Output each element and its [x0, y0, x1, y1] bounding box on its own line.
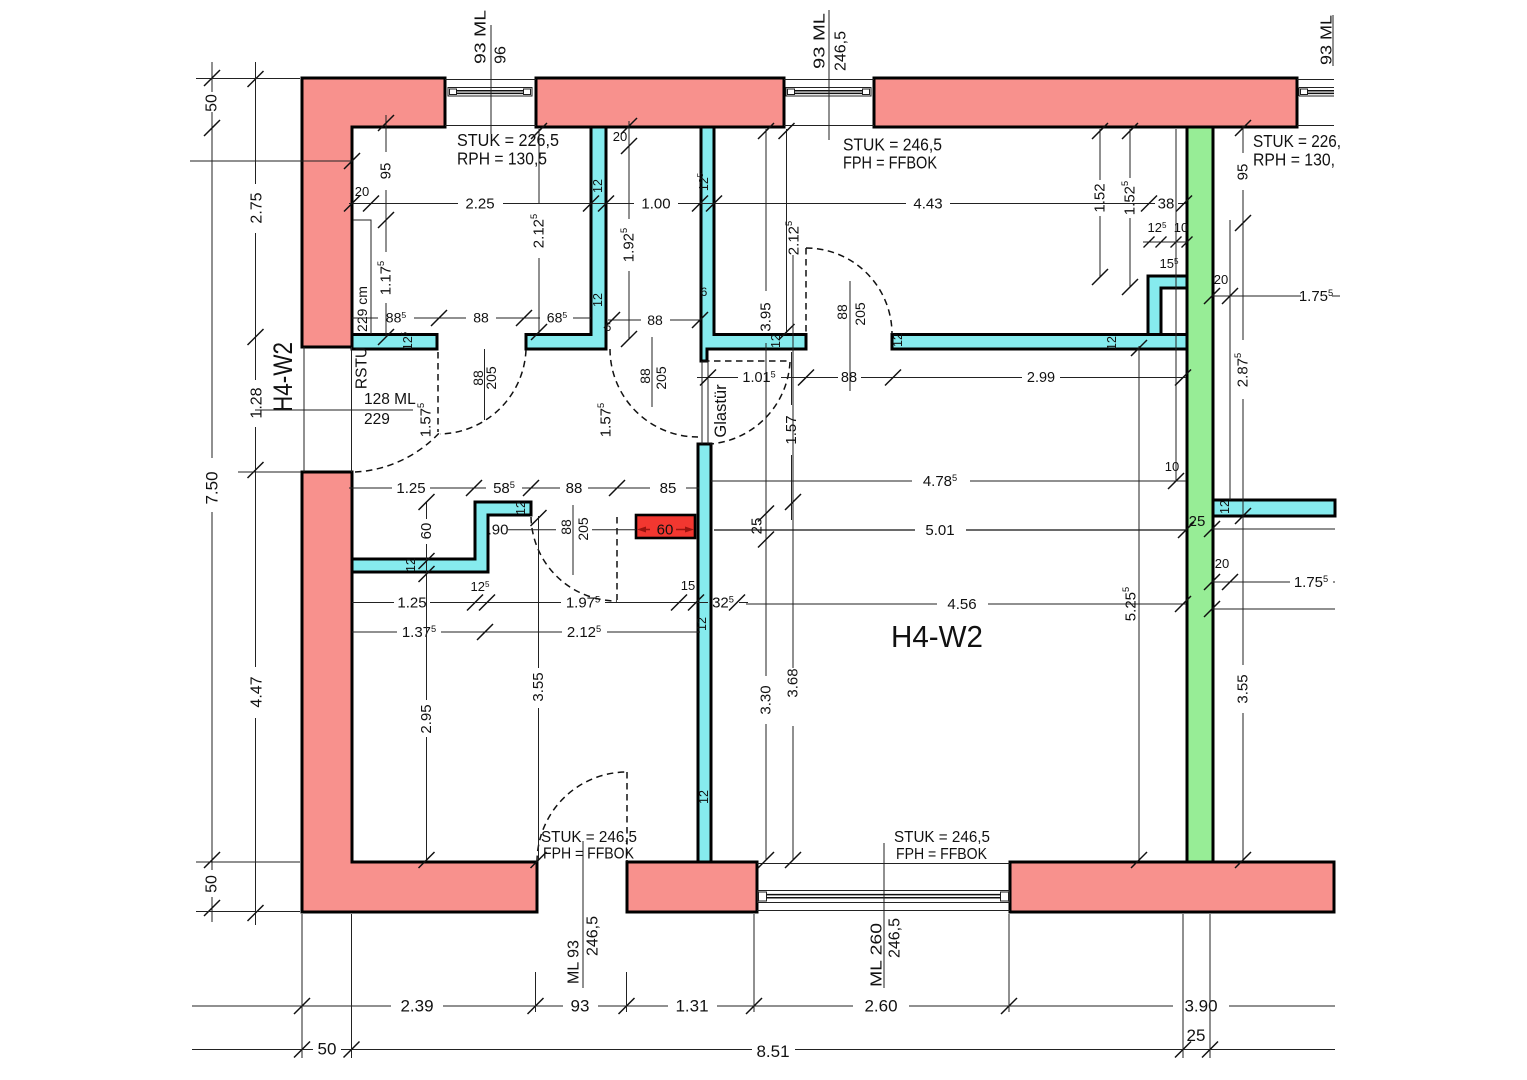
- svg-text:205: 205: [575, 517, 591, 541]
- red element 60cm: [636, 515, 695, 538]
- window W1 label 93 ML / 96: [473, 10, 510, 134]
- svg-text:38: 38: [1158, 196, 1175, 213]
- svg-text:2.25: 2.25: [465, 196, 494, 213]
- room2 dim 20 vertical: [628, 121, 630, 149]
- dim 3.68 vertical: [792, 255, 794, 668]
- svg-text:ML 260: ML 260: [869, 923, 886, 987]
- extension lines left: [196, 78, 300, 80]
- room2 dim 1.92-5 vertical: [628, 149, 630, 219]
- svg-text:93 ML: 93 ML: [473, 10, 490, 64]
- niche dim row 12-5/15-5/10: [1143, 241, 1187, 243]
- svg-text:20: 20: [613, 129, 627, 144]
- room2 bottom dim 6/88: [608, 319, 641, 321]
- svg-text:96: 96: [493, 46, 510, 64]
- svg-text:1.28: 1.28: [249, 387, 266, 418]
- door D1 label 88/205: [470, 349, 499, 420]
- svg-text:246,5: 246,5: [887, 918, 904, 958]
- svg-text:6: 6: [701, 285, 708, 299]
- window W2 in top wall: [784, 80, 874, 126]
- glass door Glastuer (dashed opening + swing): [703, 360, 790, 362]
- svg-text:93 ML: 93 ML: [812, 13, 829, 69]
- svg-text:4.56: 4.56: [947, 596, 976, 613]
- green wall (right, 25cm): [1187, 127, 1213, 862]
- svg-text:2.95: 2.95: [418, 704, 435, 733]
- top dimension chain 20/2.25/1.00/4.43/38: [349, 203, 458, 205]
- svg-text:88: 88: [473, 310, 489, 326]
- svg-text:STUK = 246,5: STUK = 246,5: [541, 829, 637, 846]
- svg-text:1.57: 1.57: [783, 415, 800, 444]
- svg-text:88: 88: [558, 519, 574, 535]
- svg-text:1.52: 1.52: [1092, 183, 1109, 212]
- dim 1.75-5 upper: [1212, 295, 1301, 297]
- svg-text:246,5: 246,5: [833, 31, 850, 71]
- svg-text:60: 60: [657, 522, 674, 539]
- svg-text:20: 20: [1215, 556, 1229, 571]
- svg-text:85: 85: [660, 480, 677, 497]
- svg-text:1.31: 1.31: [675, 997, 708, 1016]
- svg-text:93: 93: [571, 997, 590, 1016]
- feature line x=1176: [1175, 129, 1177, 481]
- interior wall A + segment 2 (cyan L): [526, 127, 606, 349]
- svg-text:88: 88: [647, 312, 663, 328]
- svg-text:3.95: 3.95: [758, 302, 775, 331]
- dim .90: [508, 529, 556, 531]
- dim 3.55 vertical left: [538, 516, 540, 668]
- glass door leaf (double thin line): [701, 361, 703, 444]
- svg-text:25: 25: [1189, 513, 1206, 530]
- dim 4.78-5 row: [711, 480, 912, 482]
- svg-text:STUK = 226,: STUK = 226,: [1253, 131, 1341, 151]
- left outer dimension line 50/7.50/50: [211, 62, 213, 92]
- svg-text:25: 25: [1187, 1026, 1206, 1045]
- svg-text:93 ML: 93 ML: [1319, 15, 1336, 65]
- svg-text:.90: .90: [488, 522, 509, 539]
- dim 60 vertical at step wall: [426, 502, 428, 519]
- svg-text:25: 25: [749, 518, 766, 535]
- svg-text:FPH = FFBOK: FPH = FFBOK: [843, 153, 937, 173]
- svg-text:8.51: 8.51: [756, 1042, 789, 1061]
- svg-text:12: 12: [514, 501, 528, 515]
- door D3 swing (top-right room): [805, 248, 807, 334]
- svg-text:6: 6: [605, 320, 612, 334]
- svg-text:1.00: 1.00: [641, 196, 670, 213]
- door D2 swing (middle room): [610, 349, 698, 437]
- outer wall bottom-left L (pink): [302, 472, 537, 912]
- door D3 label 88/205: [834, 281, 868, 391]
- svg-text:2.99: 2.99: [1027, 370, 1055, 386]
- interior wall right segment (cyan) to green wall: [892, 335, 1187, 350]
- svg-text:205: 205: [852, 302, 868, 326]
- svg-text:128 ML: 128 ML: [364, 391, 416, 408]
- bottom dim row 50/8.51/25: [192, 1049, 313, 1051]
- svg-text:3.90: 3.90: [1184, 997, 1217, 1016]
- door D4 label 88/205: [558, 505, 591, 575]
- interior wall segment 1 (cyan) left of door D1: [352, 335, 437, 350]
- svg-text:3.55: 3.55: [530, 672, 547, 701]
- outer wall bottom segment 2 (pink): [627, 862, 757, 912]
- dim row 1.37-5/2.12-5: [352, 631, 397, 633]
- svg-text:4.43: 4.43: [913, 196, 942, 213]
- svg-text:95: 95: [378, 163, 395, 180]
- svg-text:88: 88: [841, 370, 857, 386]
- dim chain 3.95/25/3.30 vertical: [765, 129, 767, 291]
- svg-text:3.30: 3.30: [758, 685, 775, 714]
- dim 5.01 row: [714, 529, 915, 531]
- svg-text:60: 60: [418, 523, 435, 540]
- svg-text:12: 12: [591, 293, 605, 307]
- outer wall top segment 2 (pink): [536, 78, 784, 127]
- svg-text:10: 10: [1165, 459, 1179, 474]
- svg-text:RSTU: RSTU: [354, 347, 371, 389]
- dim row 1.01-5/88/2.99: [697, 377, 738, 379]
- window W1 in top wall: [445, 80, 536, 126]
- svg-text:88: 88: [637, 368, 653, 384]
- interior wall (cyan) right of green wall: [1213, 500, 1335, 516]
- svg-text:12: 12: [769, 334, 783, 348]
- svg-text:STUK = 246,5: STUK = 246,5: [894, 829, 990, 846]
- svg-text:3.55: 3.55: [1235, 674, 1252, 703]
- room1 dim 2.12-5 vertical: [538, 129, 540, 203]
- line right of green y=529: [1212, 528, 1335, 530]
- svg-text:246,5: 246,5: [585, 916, 602, 956]
- window W2 label 93 ML / 246,5: [812, 10, 850, 140]
- svg-text:12: 12: [404, 558, 418, 572]
- outer wall top-left L (pink): [302, 78, 445, 347]
- left wall opening thin edges: [303, 347, 305, 472]
- entry door swing (left wall opening): [355, 431, 441, 472]
- svg-text:88: 88: [834, 304, 850, 320]
- duct niche (cyan U) at green wall: [1148, 276, 1187, 335]
- bottom dim row 2.39/93/1.31/2.60/3.90: [192, 1005, 391, 1007]
- svg-text:2.60: 2.60: [864, 997, 897, 1016]
- dim 1.52 vertical: [1099, 129, 1101, 180]
- svg-text:15: 15: [681, 578, 695, 593]
- bottom extension lines: [301, 914, 303, 1058]
- window W3 (clipped) top right: [1297, 80, 1334, 126]
- svg-text:50: 50: [204, 875, 221, 893]
- svg-text:88: 88: [566, 480, 583, 497]
- svg-text:5.01: 5.01: [925, 522, 954, 539]
- left inner dimension line 2.75/1.28/4.47: [255, 62, 257, 184]
- svg-text:20: 20: [1214, 272, 1228, 287]
- svg-text:RPH = 130,: RPH = 130,: [1253, 150, 1335, 170]
- svg-text:229: 229: [364, 411, 390, 428]
- svg-text:4.47: 4.47: [249, 676, 266, 707]
- svg-text:H4-W2: H4-W2: [891, 619, 983, 654]
- svg-text:3.68: 3.68: [785, 668, 802, 697]
- room1 bottom dim row 88-5/88/68-5: [352, 317, 378, 319]
- svg-text:205: 205: [653, 366, 669, 390]
- dim 1.52-5 vertical: [1129, 129, 1131, 178]
- door D5 swing (bottom wall): [626, 772, 628, 862]
- svg-text:50: 50: [318, 1040, 337, 1059]
- svg-text:RPH = 130,5: RPH = 130,5: [457, 149, 547, 169]
- dim 2.95 vertical: [426, 574, 428, 700]
- interior wall B + segment 3 + glass-door stub (cyan): [701, 127, 806, 361]
- dim 1.57 vertical at glass door: [791, 352, 793, 405]
- label ML 93 / 246,5 bottom door: [566, 841, 602, 988]
- dim row 1.25/58-5/88/85: [349, 487, 392, 489]
- svg-text:205: 205: [483, 366, 499, 390]
- svg-text:50: 50: [204, 94, 221, 112]
- svg-text:2.39: 2.39: [400, 997, 433, 1016]
- room1 dim 95 / 1.17-5 vertical: [385, 115, 387, 152]
- svg-text:1.25: 1.25: [397, 595, 426, 612]
- window W4 in bottom wall: [757, 864, 1010, 911]
- svg-text:STUK = 226,5: STUK = 226,5: [457, 130, 559, 150]
- room3 dim 2.12-5 vertical: [786, 129, 788, 334]
- svg-text:FPH = FFBOK: FPH = FFBOK: [896, 846, 987, 863]
- dim 5.25-5 vertical: [1138, 346, 1140, 860]
- svg-text:20: 20: [355, 184, 369, 199]
- dim row 1.25/12-5/1.97-5/15/32-5: [352, 602, 394, 604]
- svg-text:12: 12: [1218, 500, 1232, 514]
- window W4 label ML 260 / 246,5: [869, 843, 904, 988]
- window W3 label 93 ML (clipped): [1319, 15, 1336, 66]
- outer wall top segment 3 (pink): [874, 78, 1297, 127]
- svg-text:Glastür: Glastür: [712, 384, 730, 438]
- svg-text:2.75: 2.75: [249, 192, 266, 223]
- svg-text:12: 12: [697, 790, 711, 804]
- svg-text:12: 12: [591, 179, 605, 193]
- svg-text:7.50: 7.50: [203, 471, 222, 504]
- red element dim 60 with arrows: [641, 529, 690, 531]
- svg-text:12: 12: [891, 333, 905, 347]
- svg-text:1.25: 1.25: [396, 480, 425, 497]
- outer wall bottom segment 3 (pink): [1010, 862, 1334, 912]
- svg-text:ML 93: ML 93: [566, 940, 583, 984]
- dim 95 / 2.87-5 / 3.55 vertical right: [1242, 126, 1244, 153]
- svg-text:FPH = FFBOK: FPH = FFBOK: [543, 846, 634, 863]
- svg-text:12: 12: [1105, 336, 1119, 350]
- svg-text:STUK = 246,5: STUK = 246,5: [843, 135, 942, 155]
- dim 1.75-5 lower: [1212, 581, 1290, 583]
- room1 niche outline 20cm: [353, 220, 371, 334]
- svg-text:H4-W2: H4-W2: [268, 342, 298, 412]
- svg-text:12: 12: [695, 617, 709, 631]
- reference line upper left: [190, 160, 352, 162]
- svg-text:95: 95: [1235, 164, 1252, 181]
- interior vertical wall lower (cyan) below glass door: [698, 444, 711, 862]
- stepped wall (cyan) lower-left: [352, 502, 531, 572]
- door D2 label 88/205: [637, 337, 669, 407]
- door D1 swing (top-left room): [437, 352, 439, 432]
- door D4 swing (at stepped wall): [616, 517, 618, 600]
- feature line x=1230: [1229, 220, 1231, 500]
- svg-text:229 cm: 229 cm: [354, 286, 370, 332]
- line right of green y=609: [1212, 608, 1335, 610]
- dim 4.56 row: [746, 603, 937, 605]
